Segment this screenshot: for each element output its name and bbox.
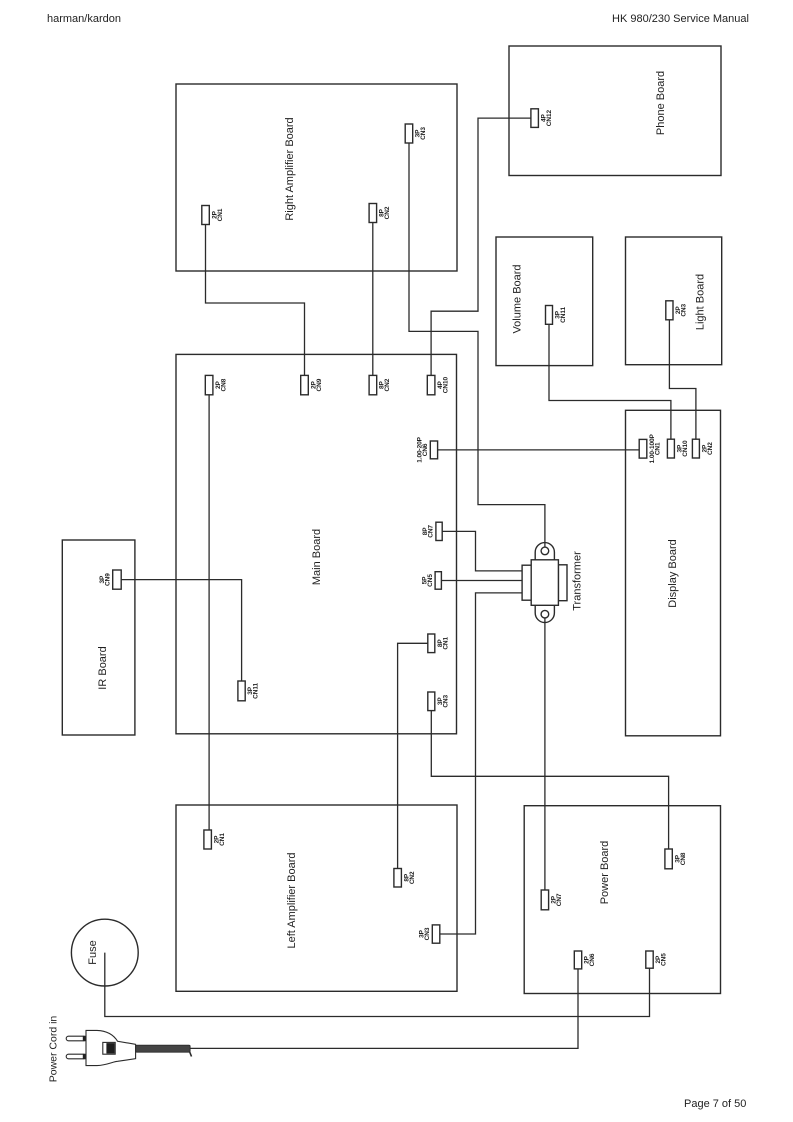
svg-text:CN1: CN1 — [217, 208, 224, 221]
svg-text:IR Board: IR Board — [97, 646, 109, 689]
svg-text:CN12: CN12 — [546, 110, 553, 127]
svg-text:CN5: CN5 — [427, 574, 434, 587]
svg-text:CN9: CN9 — [105, 573, 112, 586]
svg-text:CN8: CN8 — [220, 378, 227, 391]
svg-text:CN8: CN8 — [680, 852, 687, 865]
svg-text:Power Cord in: Power Cord in — [48, 1016, 60, 1083]
svg-text:CN10: CN10 — [442, 377, 449, 394]
svg-text:CN2: CN2 — [409, 871, 416, 884]
svg-text:Transformer: Transformer — [572, 551, 584, 611]
svg-text:CN6: CN6 — [589, 953, 596, 966]
svg-text:CN3: CN3 — [681, 303, 688, 316]
svg-text:CN3: CN3 — [420, 127, 427, 140]
svg-text:CN3: CN3 — [424, 927, 431, 940]
svg-text:CN9: CN9 — [316, 378, 323, 391]
svg-text:Fuse: Fuse — [87, 940, 99, 964]
svg-text:CN1: CN1 — [654, 442, 661, 455]
svg-text:CN2: CN2 — [707, 442, 714, 455]
svg-text:CN1: CN1 — [219, 833, 226, 846]
svg-text:CN2: CN2 — [384, 378, 391, 391]
svg-text:CN7: CN7 — [428, 525, 435, 538]
svg-text:Left Amplifier Board: Left Amplifier Board — [286, 853, 298, 949]
svg-text:CN1: CN1 — [442, 636, 449, 649]
svg-text:CN10: CN10 — [682, 440, 689, 457]
svg-text:Display Board: Display Board — [667, 539, 679, 607]
svg-text:HK 980/230 Service Manual: HK 980/230 Service Manual — [612, 13, 749, 25]
svg-text:Phone Board: Phone Board — [655, 71, 667, 135]
svg-text:Right Amplifier Board: Right Amplifier Board — [284, 117, 296, 220]
svg-text:Main Board: Main Board — [311, 529, 323, 585]
svg-text:CN6: CN6 — [422, 443, 429, 456]
svg-text:CN2: CN2 — [384, 206, 391, 219]
svg-text:Volume Board: Volume Board — [512, 264, 524, 333]
svg-text:Light Board: Light Board — [695, 274, 707, 330]
svg-text:CN11: CN11 — [253, 682, 260, 698]
svg-text:Power Board: Power Board — [599, 841, 611, 905]
svg-text:CN7: CN7 — [556, 893, 563, 906]
svg-text:CN5: CN5 — [661, 953, 668, 966]
svg-text:harman/kardon: harman/kardon — [47, 13, 121, 25]
svg-text:CN11: CN11 — [560, 306, 567, 322]
svg-text:CN3: CN3 — [442, 694, 449, 707]
svg-text:Page 7 of 50: Page 7 of 50 — [684, 1098, 746, 1110]
